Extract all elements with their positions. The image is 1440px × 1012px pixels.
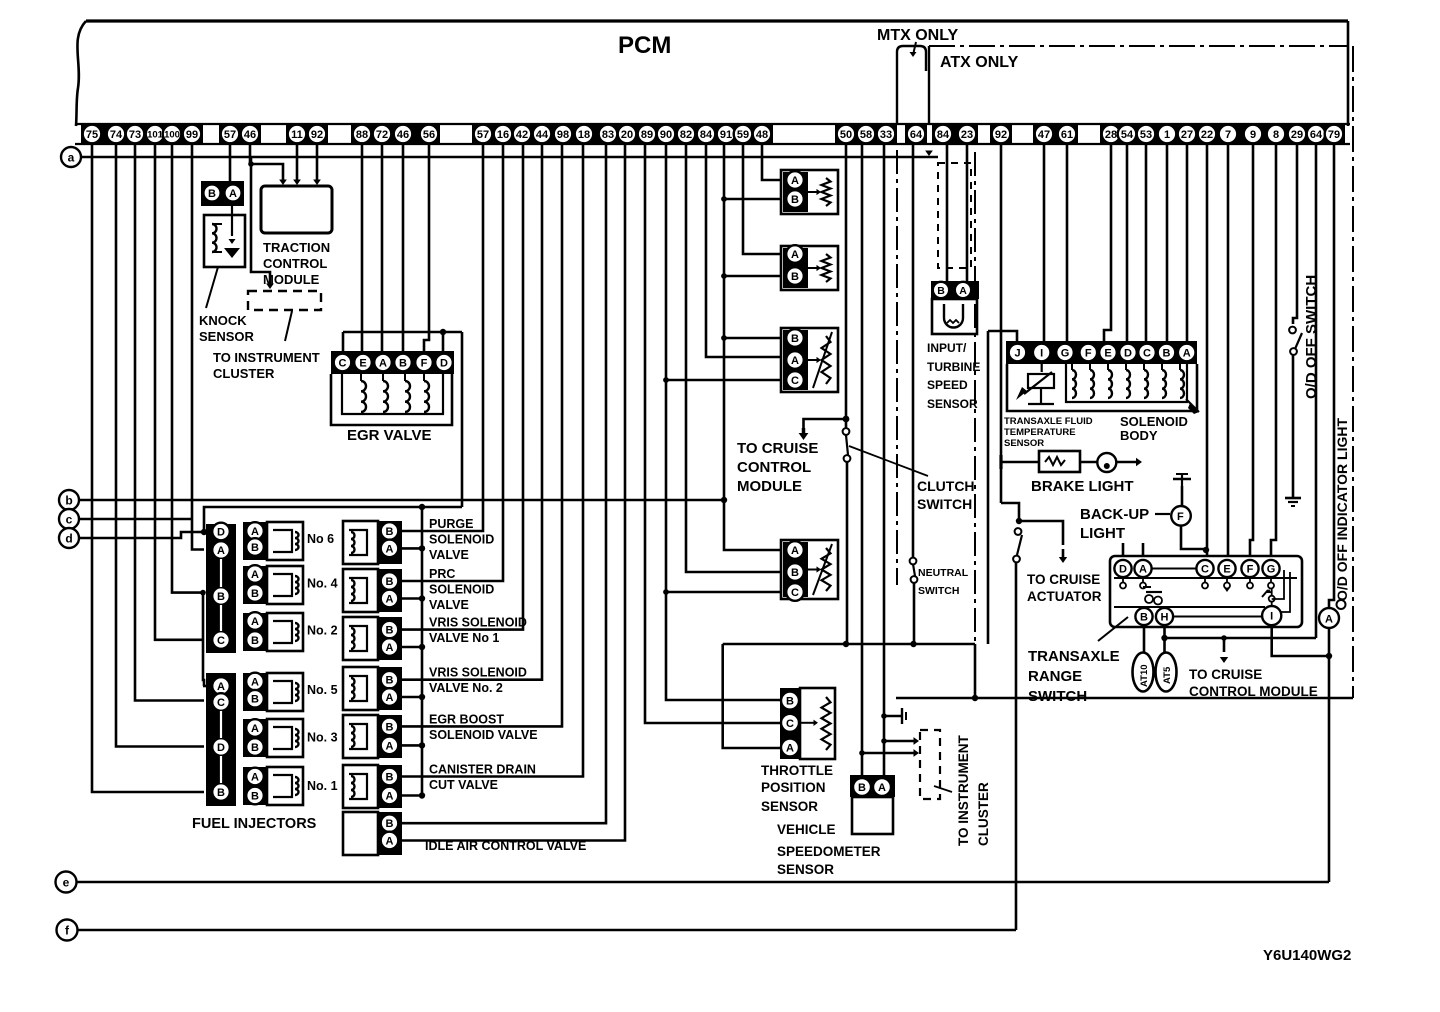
PCM connector pins 84-23 (932, 123, 978, 144)
wire VRIS SOLENOID A to common (402, 646, 422, 649)
OD off switch (1289, 327, 1296, 334)
wire VRIS SOLENOID A to common (402, 696, 422, 699)
atx lower bus (896, 697, 1353, 700)
svg-text:B: B (1140, 611, 1148, 623)
EGR valve inner box (342, 374, 443, 414)
sensor S2 (A/B) (781, 246, 838, 290)
svg-text:A: A (878, 782, 886, 794)
solenoid valve PRC (343, 569, 378, 612)
range switch contacts (1120, 583, 1126, 589)
wire CANISTER DRAIN B to pin riser (402, 144, 583, 777)
svg-text:I: I (1040, 347, 1043, 359)
wire pin92 to TCM (316, 144, 319, 180)
valve A common riser (421, 507, 424, 796)
svg-text:SWITCH: SWITCH (917, 496, 972, 512)
svg-text:MODULE: MODULE (737, 478, 802, 495)
svg-text:e: e (63, 875, 70, 889)
svg-text:AT5: AT5 (1162, 666, 1173, 684)
wire pin84 to sensor3 A (706, 144, 780, 357)
wire range A stub (1142, 543, 1145, 556)
svg-text:No. 4: No. 4 (307, 577, 338, 591)
wire a-branch to instrument cluster (251, 157, 270, 284)
svg-text:POSITION: POSITION (761, 780, 826, 795)
wire pin46 to TCM (250, 144, 283, 180)
wire pin11 to TCM (296, 144, 299, 180)
wire pin92 down (1000, 144, 1003, 503)
svg-text:9: 9 (1250, 129, 1256, 141)
wire pin47 to I (1043, 144, 1046, 342)
svg-text:91: 91 (720, 129, 732, 141)
range switch top pins (1114, 560, 1131, 577)
svg-text:VALVE: VALVE (429, 598, 469, 612)
EGR valve connector (331, 351, 454, 374)
svg-text:TO INSTRUMENT: TO INSTRUMENT (213, 350, 320, 365)
brake light bulb (1080, 461, 1097, 464)
svg-text:B: B (251, 588, 259, 600)
wire EGR BOOST B to pin riser (402, 144, 562, 726)
svg-text:42: 42 (516, 129, 528, 141)
svg-text:1: 1 (1164, 129, 1170, 141)
cruise module arrow (1221, 635, 1227, 641)
svg-text:LIGHT: LIGHT (1080, 525, 1125, 542)
MTX leader tick (913, 42, 916, 55)
svg-text:92: 92 (311, 129, 323, 141)
svg-text:72: 72 (376, 129, 388, 141)
TPS connector (780, 688, 801, 759)
wire pin23 to ITS A (966, 144, 969, 281)
wire pin75 to injector B (92, 144, 204, 792)
EGR valve outer box (331, 374, 452, 425)
svg-text:46: 46 (244, 129, 256, 141)
svg-text:TRANSAXLE FLUID: TRANSAXLE FLUID (1004, 416, 1093, 427)
svg-text:b: b (65, 493, 72, 507)
svg-text:B: B (1163, 347, 1171, 359)
svg-text:B: B (791, 567, 799, 579)
svg-text:ATX ONLY: ATX ONLY (940, 54, 1019, 71)
wire cruise actuator feed (1001, 503, 1019, 518)
wire branch pin91 to sensor3 B (721, 335, 727, 341)
sensor S1 (A/B) (781, 170, 838, 214)
svg-text:48: 48 (756, 129, 768, 141)
wire VSS A riser (883, 144, 886, 775)
svg-text:59: 59 (737, 129, 749, 141)
svg-text:G: G (1267, 563, 1276, 575)
wire PURGE B to pin riser (402, 144, 483, 531)
svg-text:8: 8 (1273, 129, 1279, 141)
wire pin74 to injector D (116, 144, 204, 747)
svg-text:RANGE: RANGE (1028, 668, 1082, 685)
svg-text:ACTUATOR: ACTUATOR (1027, 589, 1102, 604)
svg-text:SOLENOID: SOLENOID (1120, 414, 1188, 429)
PCM torn left edge (76, 21, 86, 126)
svg-text:53: 53 (1140, 129, 1152, 141)
svg-text:B: B (786, 696, 794, 708)
svg-text:AT10: AT10 (1139, 664, 1150, 687)
wire pin28 to E (1104, 144, 1111, 342)
range lower pins (1135, 608, 1152, 625)
svg-text:C: C (339, 357, 347, 369)
wire indicator to e (1328, 628, 1331, 882)
EGR C-D tie line (343, 331, 443, 334)
wire PRC A to common (402, 597, 422, 600)
svg-text:98: 98 (557, 129, 569, 141)
range switch band line (1114, 577, 1297, 579)
svg-text:B: B (399, 357, 407, 369)
svg-text:TEMPERATURE: TEMPERATURE (1004, 427, 1076, 438)
svg-text:D: D (217, 526, 225, 538)
wire pin73 to injector C (135, 144, 204, 701)
wire pin89 to TPS C (645, 144, 780, 723)
svg-text:TURBINE: TURBINE (927, 360, 980, 374)
svg-text:92: 92 (995, 129, 1007, 141)
svg-text:CLUTCH: CLUTCH (917, 478, 975, 494)
svg-text:C: C (1201, 563, 1209, 575)
svg-text:75: 75 (86, 129, 98, 141)
wire range D stub (1122, 543, 1125, 556)
svg-text:EGR VALVE: EGR VALVE (347, 427, 431, 444)
svg-text:O/D OFF SWITCH: O/D OFF SWITCH (1303, 275, 1320, 399)
AT5 connector (1156, 653, 1177, 692)
svg-text:CUT VALVE: CUT VALVE (429, 778, 498, 792)
solenoid coil 5 (1144, 370, 1148, 398)
brake light box DS1 (1039, 451, 1080, 472)
svg-text:A: A (229, 188, 237, 200)
knock sensor connector K1 (201, 181, 244, 206)
svg-text:FUEL INJECTORS: FUEL INJECTORS (192, 816, 317, 832)
junction on instrument drop (248, 161, 254, 167)
solenoid body connector (1006, 341, 1197, 364)
connector band bottom line (75, 143, 1350, 145)
svg-text:A: A (791, 545, 799, 557)
svg-text:100: 100 (164, 129, 180, 140)
wire pin9 to range F (1250, 144, 1253, 556)
node c (59, 509, 79, 529)
PCM connector pins 92 (990, 123, 1012, 144)
connector band top line (75, 123, 1350, 125)
svg-text:B: B (217, 787, 225, 799)
brake light feed tap (1001, 461, 1039, 464)
svg-text:KNOCK: KNOCK (199, 313, 247, 328)
wire pin91 common feed (724, 144, 780, 550)
svg-text:SPEED: SPEED (927, 378, 968, 392)
wire pin53 to C (1145, 144, 1148, 342)
idle air control valve (343, 812, 378, 855)
switch common bus (723, 643, 975, 646)
svg-text:C: C (1143, 347, 1151, 359)
svg-text:A: A (386, 642, 394, 654)
wire pin100 to injector B (172, 144, 204, 593)
wire pin90 to TPS B (666, 144, 780, 700)
wire OD switch lower (1292, 355, 1295, 497)
junction valve-common on d-feed (419, 504, 425, 510)
svg-text:E: E (359, 357, 366, 369)
injector harness band 1 (206, 524, 236, 653)
wire VSS B riser (861, 144, 864, 775)
svg-text:INPUT/: INPUT/ (927, 341, 967, 355)
svg-text:G: G (1061, 347, 1070, 359)
ITS shield dashed box (938, 163, 971, 268)
svg-text:PCM: PCM (618, 32, 671, 59)
PCM connector pins 57-16-42-44-98-18-83-20-89-90-82-84-91-59-48 (472, 123, 773, 144)
svg-text:B: B (251, 742, 259, 754)
svg-text:A: A (386, 543, 394, 555)
svg-text:A: A (1325, 614, 1333, 626)
svg-text:A: A (786, 742, 794, 754)
svg-text:A: A (1139, 563, 1147, 575)
fuel injector No. 1 (243, 767, 267, 805)
svg-text:82: 82 (680, 129, 692, 141)
PCM connector pins 28-54-53-1-27-22-7-9-8-29-64-79 (1100, 123, 1345, 144)
svg-text:F: F (1177, 511, 1184, 523)
svg-text:SWITCH: SWITCH (918, 585, 959, 597)
svg-text:B: B (386, 675, 394, 687)
svg-text:D: D (1119, 563, 1127, 575)
ATX dash-dot top boundary (929, 45, 1348, 47)
svg-text:TO INSTRUMENT: TO INSTRUMENT (956, 734, 971, 846)
wire PURGE A to common (402, 547, 422, 550)
svg-text:79: 79 (1328, 129, 1340, 141)
wire pin59 to sensor2 A (743, 144, 780, 254)
svg-text:B: B (791, 194, 799, 206)
svg-text:18: 18 (578, 129, 590, 141)
wire cruise module arrow (middle) (843, 416, 850, 423)
svg-text:47: 47 (1038, 129, 1050, 141)
svg-text:84: 84 (700, 129, 713, 141)
svg-text:A: A (217, 545, 225, 557)
svg-text:VEHICLE: VEHICLE (777, 822, 836, 837)
wire canister A elbow (421, 794, 424, 797)
wire f riser (1015, 562, 1018, 930)
svg-text:A: A (791, 355, 799, 367)
PCM connector pins 11-92 (286, 123, 328, 144)
svg-text:B: B (386, 576, 394, 588)
wire bus corner to atx bus (974, 644, 977, 698)
wire pin82 to sensor4 B (686, 144, 780, 572)
fuel injector No. 4 (243, 566, 267, 604)
svg-text:C: C (791, 375, 799, 387)
svg-text:SWITCH: SWITCH (1028, 688, 1087, 705)
svg-text:33: 33 (880, 129, 892, 141)
knock sensor body (204, 215, 245, 267)
svg-text:C: C (786, 718, 794, 730)
svg-text:SENSOR: SENSOR (777, 862, 834, 877)
svg-text:BRAKE LIGHT: BRAKE LIGHT (1031, 478, 1134, 495)
svg-text:VRIS SOLENOID: VRIS SOLENOID (429, 666, 527, 680)
range internal line 2 (1173, 616, 1262, 618)
wire branch pin90 to sensor4 C (663, 589, 669, 595)
wire bus to TPS A (723, 644, 780, 748)
wire branch pin91 to sensor2 B (721, 273, 727, 279)
VSS tap arrow 2 (859, 750, 865, 756)
svg-text:BACK-UP: BACK-UP (1080, 506, 1149, 523)
svg-text:11: 11 (291, 129, 303, 141)
svg-text:PRC: PRC (429, 567, 455, 581)
svg-text:B: B (251, 542, 259, 554)
PCM right edge (1347, 21, 1350, 126)
fuel injector No. 5 (243, 673, 267, 711)
svg-text:CONTROL MODULE: CONTROL MODULE (1189, 684, 1318, 699)
svg-text:B: B (858, 782, 866, 794)
instrument cluster dashed box (248, 291, 321, 310)
solenoid coil 4 (1126, 370, 1130, 398)
ITS body (932, 299, 977, 334)
wire VRIS SOLENOID B to pin riser (402, 144, 523, 630)
OD indicator lamp A (1319, 608, 1339, 628)
svg-text:CANISTER DRAIN: CANISTER DRAIN (429, 763, 536, 777)
svg-text:SOLENOID: SOLENOID (429, 533, 494, 547)
svg-text:D: D (217, 742, 225, 754)
range internal right (1269, 596, 1275, 602)
svg-text:TRANSAXLE: TRANSAXLE (1028, 648, 1120, 665)
svg-text:EGR BOOST: EGR BOOST (429, 712, 504, 726)
TFT thermistor (1041, 364, 1043, 372)
wire TFT J feed (988, 331, 1017, 342)
svg-text:E: E (1104, 347, 1111, 359)
solenoid coil 6 (1162, 370, 1166, 398)
wire I to indicator (1272, 625, 1329, 656)
wire idle air A to pin 20 riser (402, 144, 625, 841)
wire pin54 to D (1126, 144, 1129, 342)
backup light bulb F (1171, 506, 1191, 526)
ATX boundary arrow below band (925, 151, 933, 157)
svg-text:83: 83 (602, 129, 614, 141)
MTX dash-dot lower boundary (896, 150, 898, 585)
svg-text:46: 46 (397, 129, 409, 141)
svg-text:A: A (386, 835, 394, 847)
junction A2 riser (200, 590, 206, 596)
svg-text:B: B (251, 635, 259, 647)
svg-text:61: 61 (1061, 129, 1073, 141)
svg-text:90: 90 (660, 129, 672, 141)
svg-text:A: A (386, 593, 394, 605)
wire A2 into pin (203, 685, 206, 688)
svg-text:44: 44 (536, 129, 549, 141)
svg-text:BODY: BODY (1120, 428, 1158, 443)
svg-text:64: 64 (1310, 129, 1323, 141)
knock sensor coil (212, 224, 217, 252)
knock sensor leader (206, 267, 218, 308)
svg-text:F: F (1247, 563, 1254, 575)
wire pin57 to knock sensor (229, 144, 232, 182)
svg-text:74: 74 (110, 129, 123, 141)
svg-text:A: A (386, 692, 394, 704)
solenoid valve VRIS SOLENOID (343, 667, 378, 710)
svg-text:CLUSTER: CLUSTER (976, 782, 991, 846)
svg-text:No. 2: No. 2 (307, 624, 338, 638)
svg-text:B: B (251, 790, 259, 802)
instrument cluster leader (285, 311, 292, 341)
wire CANISTER DRAIN A to common (402, 794, 422, 797)
svg-text:A: A (251, 676, 259, 688)
backup power tap (1181, 473, 1183, 486)
EGR coil 4 (424, 381, 429, 412)
svg-text:B: B (791, 271, 799, 283)
solenoid valve PURGE (343, 521, 378, 564)
wire pin64 neutral upper (912, 144, 915, 558)
wire pin1 to B (1166, 144, 1169, 342)
wire pin27 to A (1186, 144, 1189, 342)
svg-text:A: A (251, 723, 259, 735)
svg-text:TO CRUISE: TO CRUISE (737, 440, 818, 457)
PCM module outline top border (86, 19, 1348, 22)
wire pin64 to H-line (1315, 144, 1318, 638)
clutch switch Q (843, 428, 850, 435)
wire pin50 clutch upper (845, 144, 848, 428)
node e (56, 872, 77, 893)
node d (59, 528, 79, 548)
svg-text:58: 58 (860, 129, 872, 141)
instrument cluster dashed box 2 (920, 730, 940, 799)
wire d to injector D junction (201, 529, 207, 535)
MTX region boundary (897, 46, 926, 124)
fuel injector No. 2 (243, 613, 267, 651)
svg-text:89: 89 (641, 129, 653, 141)
wire neutral lower (913, 583, 916, 644)
neutral switch (910, 558, 917, 565)
svg-text:A: A (386, 740, 394, 752)
range wiper (1146, 591, 1162, 593)
VSS tap arrow 1 (881, 738, 887, 744)
svg-text:B: B (386, 818, 394, 830)
svg-text:MTX ONLY: MTX ONLY (877, 27, 959, 44)
cruise f switch (1015, 528, 1022, 535)
range switch leader (1098, 617, 1128, 641)
wire pin48 to sensor1 A (762, 144, 780, 180)
svg-text:88: 88 (356, 129, 368, 141)
svg-text:J: J (1014, 347, 1020, 359)
node f (57, 920, 78, 941)
svg-text:C: C (217, 697, 225, 709)
svg-text:a: a (68, 150, 75, 164)
svg-text:99: 99 (186, 129, 198, 141)
VSS ground tap (881, 713, 887, 719)
svg-text:B: B (386, 526, 394, 538)
solenoid valve EGR BOOST (343, 715, 378, 758)
wire clutch lower (846, 462, 849, 644)
range contact arrows (1224, 588, 1230, 592)
svg-text:TO CRUISE: TO CRUISE (1027, 572, 1100, 587)
wire branch pin90 to sensor3 C (663, 377, 669, 383)
svg-text:73: 73 (129, 129, 141, 141)
injector harness band 2 (206, 673, 236, 806)
svg-text:B: B (217, 591, 225, 603)
wire backup lower (1181, 526, 1204, 549)
svg-text:7: 7 (1225, 129, 1231, 141)
svg-text:56: 56 (423, 129, 435, 141)
svg-text:16: 16 (497, 129, 509, 141)
node b (59, 490, 79, 510)
svg-text:d: d (65, 531, 72, 545)
svg-text:23: 23 (961, 129, 973, 141)
ATX dash-dot right boundary (1352, 46, 1354, 698)
wire pin99/c to injector A (192, 144, 204, 550)
svg-text:A: A (1183, 347, 1191, 359)
svg-text:CONTROL: CONTROL (263, 256, 327, 271)
svg-text:C: C (217, 635, 225, 647)
svg-text:PURGE: PURGE (429, 517, 473, 531)
traction control module box U1 (261, 186, 332, 233)
wire pin7 to range E (1227, 144, 1230, 556)
wire pin29 upper (1293, 144, 1297, 324)
wire pin8 to range G (1271, 144, 1276, 556)
svg-text:84: 84 (937, 129, 950, 141)
svg-text:I: I (1270, 611, 1273, 623)
junction cruise actuator (1016, 518, 1022, 524)
svg-text:B: B (208, 188, 216, 200)
range internal line 1 (1114, 606, 1265, 608)
svg-text:B: B (386, 721, 394, 733)
svg-text:101: 101 (147, 129, 164, 140)
